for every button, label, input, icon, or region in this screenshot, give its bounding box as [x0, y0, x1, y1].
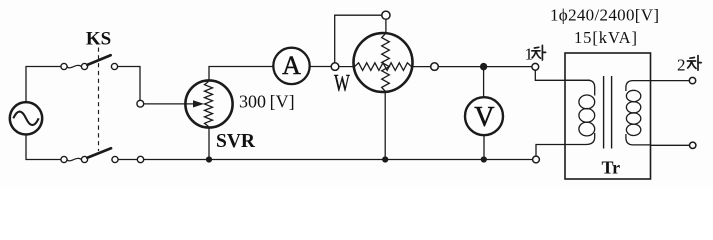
- terminal node (SVR wiper): [137, 100, 144, 107]
- svg-text:2: 2: [677, 55, 686, 74]
- wattmeter W right terminal: [431, 63, 439, 71]
- junction W-rail: [382, 156, 388, 162]
- transformer core: [604, 76, 612, 149]
- terminal (primary bottom): [533, 156, 540, 163]
- transformer primary winding: [565, 80, 595, 144]
- switch KS top pole blade: [87, 55, 110, 65]
- terminal 2cha (secondary top): [689, 77, 695, 83]
- bottom rail segment: [144, 159, 532, 161]
- switch KS bottom contact: [112, 156, 118, 162]
- wire source bottom to fuse: [26, 135, 61, 160]
- wire SVR top to ammeter: [209, 67, 273, 81]
- transformer secondary winding: [626, 81, 651, 145]
- ac source G: [10, 102, 42, 134]
- junction node V-tap: [480, 63, 487, 70]
- wire source top to fuse: [26, 67, 61, 103]
- svg-text:V: V: [474, 102, 494, 133]
- wire bottom terminal into primary coil: [536, 145, 565, 157]
- terminal (secondary bottom): [690, 142, 696, 148]
- terminal node (bottom): [137, 156, 143, 162]
- wire W terminal to V node: [438, 66, 532, 68]
- junction V-rail: [481, 156, 487, 162]
- wire V node down: [483, 67, 485, 98]
- fuse F2 (bottom): [61, 156, 88, 162]
- switch KS linkage (dashed): [98, 48, 100, 152]
- voltmeter V: [465, 97, 503, 135]
- wire SVR bottom to rail: [208, 128, 210, 160]
- SVR (slide voltage regulator): [185, 80, 232, 127]
- wattmeter W: [339, 33, 431, 92]
- svg-text:Tr: Tr: [602, 158, 621, 178]
- terminal 1cha (primary top): [532, 63, 539, 70]
- wire secondary bottom to terminal: [651, 144, 690, 146]
- ammeter A: [273, 48, 309, 84]
- wire switch to SVR wiper: [118, 67, 140, 101]
- wattmeter potential terminal: [382, 11, 390, 19]
- wire V bottom to rail: [483, 135, 485, 159]
- svg-text:KS: KS: [86, 29, 111, 50]
- SVR wiper arrow: [144, 100, 204, 107]
- wire ammeter to wattmeter: [310, 66, 331, 68]
- transformer Tr box: [565, 53, 651, 179]
- svg-text:W: W: [334, 71, 350, 97]
- wire 1cha terminal into primary coil: [535, 70, 590, 80]
- fuse F1 (top): [61, 63, 88, 69]
- svg-text:SVR: SVR: [216, 131, 256, 152]
- wire W bottom to rail: [384, 92, 386, 160]
- svg-text:300 [V]: 300 [V]: [239, 92, 295, 112]
- junction SVR-rail: [206, 156, 212, 162]
- svg-text:15[kVA]: 15[kVA]: [574, 28, 637, 47]
- wire W potential (left-up-right): [335, 15, 382, 63]
- svg-text:1ϕ240/2400[V]: 1ϕ240/2400[V]: [550, 6, 659, 25]
- wire potential terminal to W: [385, 19, 387, 33]
- switch KS top contact: [111, 63, 117, 69]
- svg-text:A: A: [282, 51, 301, 80]
- svg-text:1: 1: [525, 45, 534, 64]
- switch KS bottom pole blade: [87, 148, 111, 157]
- wire bottom contact to terminal: [118, 159, 137, 161]
- wire secondary top to terminal: [651, 80, 690, 82]
- wattmeter W left terminal: [331, 63, 339, 71]
